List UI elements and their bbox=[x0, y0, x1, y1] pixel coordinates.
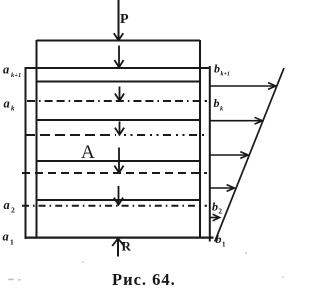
svg-text:1: 1 bbox=[222, 241, 226, 249]
svg-text:b: b bbox=[216, 232, 222, 246]
svg-text:k+1: k+1 bbox=[11, 72, 21, 79]
wire: right outer vertical bbox=[209, 66, 211, 242]
wire: bottom edge bbox=[25, 237, 214, 239]
wire: layer line y205.7 dash-dot bbox=[22, 205, 207, 207]
right arrow b_k+1 level y86 bbox=[210, 83, 276, 90]
internal down arrow to y68 bbox=[114, 46, 123, 68]
wire: stress diagram diagonal bbox=[215, 68, 284, 242]
svg-text:A: A bbox=[81, 142, 95, 163]
right arrow y217.5 bbox=[210, 214, 220, 221]
faint scan specks bbox=[8, 252, 284, 281]
svg-text:1: 1 bbox=[10, 238, 14, 247]
svg-text:a: a bbox=[3, 63, 9, 77]
right arrow y155 bbox=[210, 152, 248, 159]
internal down arrow to y101 bbox=[115, 87, 124, 101]
svg-text:b: b bbox=[214, 96, 220, 110]
internal down arrow to y173 bbox=[114, 148, 123, 173]
wire: layer line y101 dash-dot bbox=[27, 100, 207, 102]
wire: layer line y200 solid bbox=[37, 199, 201, 201]
wire: layer line y135 dash left part bbox=[25, 134, 116, 136]
internal down arrow to y135 bbox=[115, 122, 124, 135]
svg-text:R: R bbox=[122, 239, 132, 254]
wire: layer line y120 solid bbox=[37, 119, 201, 121]
wire: layer line y135 dotted right part bbox=[124, 134, 206, 136]
svg-text:P: P bbox=[120, 12, 129, 27]
svg-text:a: a bbox=[4, 198, 10, 212]
wire: layer line y173 dashed bbox=[22, 172, 207, 174]
reaction R arrow bbox=[112, 239, 124, 257]
wire: layer line y161 solid bbox=[37, 160, 201, 162]
right arrow y188 bbox=[210, 185, 234, 192]
svg-text:Рис. 64.: Рис. 64. bbox=[112, 270, 176, 289]
internal down arrow to y205 bbox=[114, 186, 123, 205]
svg-text:a: a bbox=[3, 230, 9, 244]
wire: left outer vertical of wide block bbox=[25, 67, 27, 239]
wire: layer line y81.5 solid bbox=[37, 81, 201, 83]
wire: right inner vertical (column side) bbox=[199, 40, 201, 238]
svg-text:k: k bbox=[11, 105, 15, 113]
right arrow y120.7 bbox=[210, 117, 262, 124]
force P arrow bbox=[114, 0, 123, 40]
svg-text:k: k bbox=[220, 106, 224, 113]
svg-text:2: 2 bbox=[219, 208, 223, 216]
svg-text:2: 2 bbox=[11, 206, 15, 215]
svg-text:b: b bbox=[212, 200, 218, 214]
wire: layer line y68 solid bbox=[26, 67, 210, 69]
svg-text:b: b bbox=[214, 62, 220, 76]
wire: top edge bbox=[37, 39, 201, 41]
svg-text:a: a bbox=[4, 97, 10, 111]
svg-text:k+1: k+1 bbox=[221, 72, 230, 78]
wire: left inner vertical (column side) bbox=[36, 40, 38, 239]
